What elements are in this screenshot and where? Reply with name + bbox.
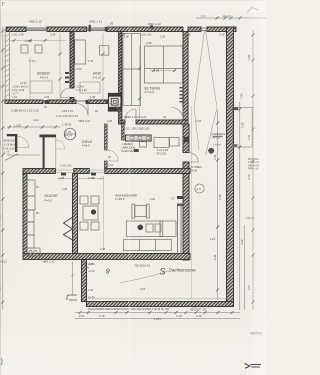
svg-text:2.26: 2.26 <box>44 95 50 99</box>
svg-text:-2.26½: -2.26½ <box>76 85 85 89</box>
svg-text:≈801 5.11: ≈801 5.11 <box>78 119 91 123</box>
flur circle stamp <box>64 128 76 140</box>
svg-text:2.01 1.38 2.285 1.01: 2.01 1.38 2.285 1.01 <box>124 127 150 131</box>
svg-text:1.01 2.26: 1.01 2.26 <box>76 88 87 92</box>
svg-text:2.42: 2.42 <box>213 254 217 260</box>
wardrobe center line <box>123 34 141 106</box>
window top 3 <box>201 28 207 31</box>
top right ruler <box>196 17 266 19</box>
kitchen counter 2 <box>27 196 35 210</box>
svg-text:KÜCHE: KÜCHE <box>45 194 59 198</box>
svg-text:2.26: 2.26 <box>185 33 191 37</box>
svg-text:≈ 60 m²: ≈ 60 m² <box>245 216 254 220</box>
living sofa <box>124 239 172 250</box>
right ruler ticks <box>252 34 255 304</box>
dining chair 2 <box>91 196 99 204</box>
svg-text:4.11: 4.11 <box>33 118 39 122</box>
svg-text:-2.26½ B=2.5: -2.26½ B=2.5 <box>12 85 28 89</box>
eltern bottom wall seg2 <box>136 120 188 124</box>
dining chair 1 <box>80 196 88 204</box>
niche diagonal <box>5 154 18 161</box>
svg-text:≈801 1.12: ≈801 1.12 <box>28 19 42 23</box>
void diagonal right <box>206 30 218 155</box>
extra annotation noise <box>12 22 216 292</box>
svg-text:2.26: 2.26 <box>150 197 156 201</box>
svg-text:+2.42: +2.42 <box>88 295 95 299</box>
svg-text:2.19: 2.19 <box>247 284 251 290</box>
svg-text:4.785: 4.785 <box>25 39 32 43</box>
living sideboard <box>126 221 163 237</box>
balcony rectangle right of wall <box>232 107 252 147</box>
mid wall corridor/kitchen-living seg2 <box>74 169 90 174</box>
svg-text:F=13,9: F=13,9 <box>145 90 155 94</box>
svg-text:F=11,8: F=11,8 <box>93 76 102 80</box>
kitchen counter 4 <box>27 222 34 235</box>
balcony dim ticks <box>238 108 241 149</box>
svg-text:2.26: 2.26 <box>0 139 2 145</box>
column circle right <box>208 148 214 154</box>
svg-text:≈801 1.12: ≈801 1.12 <box>42 260 55 264</box>
bottom ruler 2 <box>75 318 240 320</box>
radiator teeth eltern <box>180 87 184 102</box>
svg-text:1.01: 1.01 <box>12 95 18 99</box>
kitchen left wall <box>23 174 27 258</box>
scan edge left <box>0 0 2 375</box>
right ruler line <box>252 30 254 310</box>
left wall ticks <box>5 29 9 102</box>
svg-text:3.485: 3.485 <box>88 176 95 180</box>
svg-text:2.26: 2.26 <box>160 35 166 39</box>
svg-text:4.48: 4.48 <box>0 84 2 90</box>
top right check mark <box>247 8 258 13</box>
svg-text:1.76 +: 1.76 + <box>29 59 37 63</box>
terrace inner edge line <box>191 106 193 299</box>
svg-text:2.26: 2.26 <box>140 287 146 291</box>
corridor top wall seg2 <box>48 100 76 104</box>
divider zigzag <box>64 217 73 240</box>
bottom ruler 1 <box>75 312 240 314</box>
corridor top wall seg3 <box>88 100 108 104</box>
svg-text:DZ 26/16-01: DZ 26/16-01 <box>135 264 151 268</box>
svg-text:1 ⅛ m²: 1 ⅛ m² <box>213 143 221 147</box>
door arc room1 divider <box>61 88 71 98</box>
terrace gutter line <box>88 298 226 300</box>
room divider wall 2 <box>119 32 122 125</box>
svg-text:-1.77: -1.77 <box>3 151 10 155</box>
bath box 2 <box>170 138 180 147</box>
top wall segment A <box>7 27 27 32</box>
mid wall corridor/kitchen-living seg3 <box>105 169 190 174</box>
svg-text:4.40: 4.40 <box>247 174 251 180</box>
left exterior wall light ladder <box>5 27 9 104</box>
svg-text:1.38: 1.38 <box>62 187 68 191</box>
svg-text:4.48: 4.48 <box>0 214 2 220</box>
svg-text:2.26 1.01 93 2.26: 2.26 1.01 93 2.26 <box>126 115 147 119</box>
corridor top wall seg1 <box>5 100 43 104</box>
door arc corridor 1 <box>76 104 88 116</box>
svg-text:Dachterrasse: Dachterrasse <box>169 268 197 273</box>
svg-text:F=8,6: F=8,6 <box>82 143 90 147</box>
door arc eltern <box>172 108 184 120</box>
terrace-facing wall lower <box>183 162 189 260</box>
bath label umkleide <box>122 142 137 153</box>
corridor dim ticks <box>8 126 57 129</box>
door arc eltern entry <box>125 109 136 120</box>
kitchen counter 3 <box>27 210 34 222</box>
window top 1 <box>26 28 47 31</box>
svg-text:2.42: 2.42 <box>213 154 217 160</box>
svg-text:1 10½: 1 10½ <box>154 317 162 321</box>
sideboard dark dot <box>138 225 144 231</box>
svg-text:1.01 2.26 93 2.26: 1.01 2.26 93 2.26 <box>56 114 78 118</box>
living sofa divisions <box>140 239 156 250</box>
svg-text:F=9,2: F=9,2 <box>45 199 53 203</box>
living window jambs <box>177 196 183 199</box>
wc room top wall <box>40 135 57 138</box>
bottom ruler ticks <box>79 311 234 314</box>
svg-text:7.84: 7.84 <box>240 93 244 99</box>
right inner ruler 2 <box>244 225 246 310</box>
top wall segment E <box>207 27 236 32</box>
black L-wall horizontal <box>7 134 17 136</box>
svg-text:1.85: 1.85 <box>218 194 222 200</box>
left edge small mark <box>1 358 2 365</box>
top ruler ticks <box>216 17 242 20</box>
passage jamb marks <box>61 173 96 176</box>
tick marks <box>1 17 254 315</box>
svg-text:1.80: 1.80 <box>154 69 160 73</box>
wc door arc <box>56 140 65 149</box>
svg-text:+2.26: +2.26 <box>75 67 82 71</box>
svg-text:2.80: 2.80 <box>146 41 152 45</box>
svg-text:2.26 1.01: 2.26 1.01 <box>140 33 152 37</box>
room divider wall 1 stub <box>70 98 74 102</box>
kitchen dim line <box>57 177 104 180</box>
room2 lower rect <box>80 82 100 93</box>
svg-text:S: S <box>160 267 166 277</box>
svg-text:1.01: 1.01 <box>59 176 65 180</box>
svg-text:2.42: 2.42 <box>88 288 94 292</box>
armchair arm left <box>132 204 135 218</box>
svg-text:DACHTERRASSENABDECKUNG UND G: DACHTERRASSENABDECKUNG UND GELÄNDER 1.00… <box>88 307 169 311</box>
room divider wall 1 <box>70 32 74 89</box>
dining table <box>83 206 98 220</box>
kitchen stove <box>27 248 40 256</box>
svg-text:FFB ≈ 60: FFB ≈ 60 <box>248 167 259 171</box>
svg-text:F=12,4: F=12,4 <box>40 76 49 80</box>
wc room right line <box>55 137 57 169</box>
svg-text:UMKLEIDE: UMKLEIDE <box>122 145 136 149</box>
svg-text:4.40: 4.40 <box>240 239 244 245</box>
svg-text:KIND: KIND <box>93 72 102 76</box>
svg-text:34 OBEN: 34 OBEN <box>191 165 202 169</box>
top wall segment C <box>107 27 183 32</box>
svg-text:2.79: 2.79 <box>0 284 2 290</box>
shaft chimney block <box>109 94 122 112</box>
dining chair 3 <box>80 222 88 230</box>
living armchair <box>135 206 147 217</box>
door arc terrace <box>189 153 198 162</box>
bottom right squiggle <box>245 364 262 369</box>
terrace left wall <box>82 260 87 302</box>
svg-text:1.63 2.01: 1.63 2.01 <box>60 164 72 168</box>
left ruler line <box>2 27 4 310</box>
svg-text:2.26: 2.26 <box>50 33 56 37</box>
terrace-facing wall upper <box>183 124 189 153</box>
svg-text:1.38: 1.38 <box>125 142 131 146</box>
bottom left dim line <box>71 262 74 295</box>
room1 desk 2 <box>35 45 42 53</box>
svg-text:2.19: 2.19 <box>210 237 216 241</box>
svg-text:2.26: 2.26 <box>219 33 225 37</box>
svg-text:2.26: 2.26 <box>120 33 126 37</box>
right inner ruler lower <box>239 102 241 310</box>
living window front <box>178 206 182 254</box>
kitchen counter 5 <box>27 235 34 248</box>
dining dark dot <box>91 209 96 214</box>
svg-text:KAMINZUG: KAMINZUG <box>211 132 225 136</box>
balcony dark tick <box>232 107 238 110</box>
eltern right wall <box>183 32 188 121</box>
svg-text:1.01: 1.01 <box>108 163 114 167</box>
left lower dim line <box>7 154 40 156</box>
bath box 1 <box>154 138 169 148</box>
svg-text:2.0: 2.0 <box>197 187 202 191</box>
living left dim line <box>103 176 105 250</box>
kitchen living divider <box>73 174 78 254</box>
top wall segment B <box>47 27 87 32</box>
svg-text:2.26: 2.26 <box>196 119 202 123</box>
rotated margin texts <box>0 54 251 290</box>
top wall segment D <box>188 27 201 32</box>
svg-text:27: 27 <box>171 197 175 201</box>
svg-text:F=28,6: F=28,6 <box>115 197 125 201</box>
svg-text:≈ 2%: ≈ 2% <box>83 266 90 270</box>
svg-text:1.38: 1.38 <box>90 95 96 99</box>
svg-text:2.285 B=2.5 1.01 2.26: 2.285 B=2.5 1.01 2.26 <box>11 109 39 113</box>
void diagonal left <box>194 30 205 150</box>
svg-text:≈801 1.12: ≈801 1.12 <box>147 22 161 26</box>
scan mark top-left <box>3 3 6 7</box>
mid wall corridor/kitchen-living seg1 <box>23 169 56 174</box>
svg-text:1.135: 1.135 <box>14 123 21 127</box>
svg-text:1.38 93: 1.38 93 <box>62 123 72 127</box>
svg-text:2.26: 2.26 <box>247 54 251 60</box>
passage threshold lines <box>56 170 105 173</box>
svg-text:2.26: 2.26 <box>247 134 251 140</box>
eltern bed <box>145 46 183 83</box>
room1 lower rect <box>30 81 52 93</box>
svg-text:B=2.4: B=2.4 <box>65 134 73 138</box>
dining chair 4 <box>91 222 99 230</box>
svg-text:KINDER: KINDER <box>37 72 50 76</box>
svg-text:2.19: 2.19 <box>196 314 202 318</box>
svg-text:4.48: 4.48 <box>100 247 106 251</box>
terrace circle stamp <box>195 184 204 193</box>
bath dark blob <box>134 149 139 152</box>
svg-text:1 ¾: 1 ¾ <box>201 14 207 18</box>
bottom left bracket <box>67 295 77 300</box>
terrace ruler ticks <box>216 122 219 292</box>
svg-text:AB DR.HT +95: AB DR.HT +95 <box>190 309 207 312</box>
svg-text:93 2.26: 93 2.26 <box>157 152 167 156</box>
interior dim line room1 <box>10 33 176 118</box>
black L-wall vertical <box>15 134 17 152</box>
window mullion tick 2 <box>150 25 152 28</box>
eltern bed center line <box>145 46 183 83</box>
armchair arm right <box>146 204 149 218</box>
terrace bottom wall <box>87 302 234 307</box>
terrace inner ruler <box>217 110 219 300</box>
svg-text:+2.26: +2.26 <box>20 81 27 85</box>
bath wall diele <box>105 124 125 169</box>
corridor door gap lines <box>43 100 88 102</box>
window end tick <box>105 27 107 32</box>
svg-text:1.01 2.26: 1.01 2.26 <box>12 33 24 37</box>
terrace wall small ticks <box>88 262 95 299</box>
svg-text:2.26 1.01: 2.26 1.01 <box>62 109 73 113</box>
svg-text:≈801 1.12: ≈801 1.12 <box>89 19 103 23</box>
bottom wall of main block <box>23 254 190 260</box>
niche door arc <box>17 136 29 148</box>
room1 desk 1 <box>21 45 28 53</box>
bath dark vanity <box>125 135 151 141</box>
eltern bottom wall seg1 <box>122 120 125 124</box>
room2 bed <box>75 40 86 64</box>
stove burners <box>29 250 32 253</box>
sideboard items <box>146 224 153 232</box>
svg-text:-1.77: -1.77 <box>12 92 18 96</box>
bath toilet <box>140 142 147 148</box>
door jamb dark on terrace wall <box>184 137 189 142</box>
wc room left wall <box>43 137 45 169</box>
svg-text:+2.42: +2.42 <box>88 269 95 273</box>
right exterior wall <box>227 27 234 302</box>
kitchen counter 1 <box>27 180 35 196</box>
bath door arc <box>107 150 118 161</box>
svg-text:2.19: 2.19 <box>176 314 182 318</box>
svg-text:2.04: 2.04 <box>79 314 85 318</box>
window top 2 <box>87 28 108 31</box>
window mullion tick 1 <box>89 25 91 32</box>
corridor door jambs <box>45 100 109 104</box>
eltern wardrobe <box>123 34 141 106</box>
door arc corridor 2 <box>108 104 120 116</box>
svg-text:Δ≈ m²: Δ≈ m² <box>223 14 231 18</box>
scan edge top <box>0 0 266 2</box>
left ruler ticks <box>1 30 4 304</box>
svg-text:1.76: 1.76 <box>88 59 94 63</box>
svg-text:1.85: 1.85 <box>241 122 245 128</box>
corridor dim line <box>7 126 60 128</box>
door jamb marks divider1 <box>65 72 69 83</box>
svg-text:1.01 ≈2.26: 1.01 ≈2.26 <box>12 88 25 92</box>
room2 desk <box>100 46 109 55</box>
inner dim ticks rooms <box>13 39 177 100</box>
vanity basins <box>130 137 150 140</box>
living right seat <box>160 221 176 237</box>
svg-text:2.79: 2.79 <box>99 314 105 318</box>
svg-text:≈1.12: ≈1.12 <box>0 260 7 264</box>
terrace label arrow <box>120 271 168 283</box>
svg-text:NOT1B: NOT1B <box>251 332 263 336</box>
svg-text:2.26: 2.26 <box>107 119 113 123</box>
